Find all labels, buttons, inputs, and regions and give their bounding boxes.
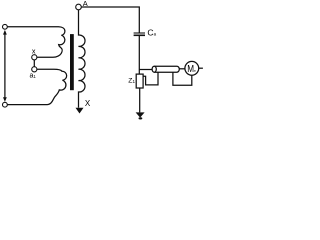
ground arrow bottom [136, 112, 145, 117]
cable shield lead near end [143, 72, 158, 85]
supply arrow line (double-headed) [4, 32, 6, 101]
terminal top-left input [3, 24, 8, 29]
arrowhead down [3, 97, 7, 102]
dot after M [194, 70, 195, 71]
terminal x [32, 55, 37, 60]
capacitor Ca top plate [134, 32, 145, 34]
resistor Z1 [136, 74, 143, 88]
cable shield lead far end [173, 72, 192, 85]
wire top-left input to primary winding with upper section (2 turns) and tap to x [7, 27, 65, 58]
coax cable body [154, 66, 179, 72]
wire meter right stub [199, 67, 203, 69]
wire capacitor to junction and resistor [138, 35, 140, 74]
svg-text:a1: a1 [30, 73, 37, 80]
wire bottom-left input to primary winding bottom [7, 104, 43, 106]
wire resistor to ground [139, 88, 141, 112]
transformer core [70, 34, 74, 90]
ground dot [139, 117, 143, 119]
secondary winding (5 turns) with lead to A [79, 10, 86, 108]
wire link x to a1 [33, 60, 35, 67]
terminal a1 [32, 67, 37, 72]
wire cable to meter [179, 68, 185, 70]
ground arrow secondary bottom [76, 108, 84, 114]
svg-text:x: x [32, 46, 36, 55]
svg-text:M: M [187, 64, 194, 75]
terminal bottom-left input [3, 102, 8, 107]
coax cable left end [152, 66, 156, 72]
svg-text:Z1: Z1 [128, 77, 135, 84]
arrowhead up [3, 30, 7, 35]
svg-text:X: X [85, 99, 91, 108]
wire A to top-right corner and down [81, 7, 139, 33]
primary winding lower section (2 turns) from a1 down to bottom wire [37, 69, 67, 104]
wire junction to cable left [139, 69, 152, 71]
terminal A (HV) [76, 4, 82, 10]
capacitor Ca bottom plate [134, 34, 145, 36]
meter M [185, 61, 199, 75]
svg-text:Ca: Ca [147, 27, 156, 37]
